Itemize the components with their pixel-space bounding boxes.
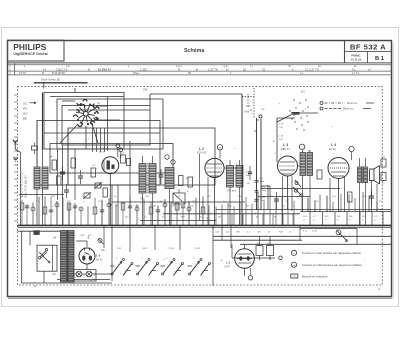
wires mains — [29, 231, 31, 245]
switch wires — [62, 100, 75, 102]
svg-text:Schéma: Schéma — [184, 48, 204, 54]
speckle dots — [254, 99, 308, 131]
svg-text:17e: 17e — [66, 65, 71, 68]
legend mV circle 1 — [291, 250, 296, 255]
svg-text:2M: 2M — [219, 147, 222, 149]
svg-text:1k2: 1k2 — [382, 183, 385, 185]
wire bus y209 — [216, 209, 391, 211]
antenna — [14, 143, 16, 149]
component symbols band — [20, 203, 205, 214]
component cells right dividers — [309, 212, 311, 226]
svg-text:8 10 20 90: 8 10 20 90 — [52, 71, 65, 75]
svg-text:1M: 1M — [192, 201, 195, 203]
wire detector column — [276, 118, 278, 162]
svg-text:4 2 T a: 4 2 T a — [352, 72, 360, 75]
svg-text:GO: GO — [23, 111, 28, 115]
mains fuse — [34, 231, 39, 235]
capacitor C11 — [78, 175, 83, 177]
IF transformer T2 winding a — [227, 166, 234, 188]
wire y194 left — [19, 194, 64, 196]
cells dividers centre — [222, 214, 293, 226]
svg-text:PO: PO — [23, 106, 28, 110]
resistor R18 box — [317, 170, 322, 179]
oscillator coil L5a — [34, 167, 40, 189]
svg-text:AZ 41: AZ 41 — [96, 259, 103, 262]
svg-text:4: 4 — [116, 257, 117, 259]
IF transformer T3 winding a — [300, 153, 306, 176]
svg-text:N: N — [88, 67, 90, 71]
mains bus left — [18, 230, 61, 232]
resistor R6 box — [57, 176, 62, 185]
resistor R3 box — [71, 158, 76, 168]
svg-text:L 1: L 1 — [100, 146, 105, 150]
wires IFT3 — [302, 176, 304, 212]
svg-text:Mesuré en voltmètre: Mesuré en voltmètre — [302, 274, 328, 278]
svg-text:C 29: C 29 — [279, 124, 284, 126]
power transformer secondary — [68, 231, 74, 283]
svg-text:1M: 1M — [337, 216, 340, 218]
wires output stage — [359, 183, 361, 226]
wire bus y220 — [140, 220, 216, 222]
svg-text:Org/SERVICE Central: Org/SERVICE Central — [13, 52, 47, 56]
svg-text:BF 532 A: BF 532 A — [350, 43, 386, 52]
grid stopper circle — [349, 146, 354, 151]
resistor R9 box — [188, 177, 193, 187]
wires rectifier — [86, 241, 88, 247]
wires psu verticals — [111, 226, 113, 281]
capacitor C30 — [369, 195, 374, 197]
padding trimmer C6 — [32, 146, 38, 150]
svg-text:N: N — [42, 71, 44, 75]
wires around L3 — [282, 176, 284, 225]
resistor R2 box — [52, 160, 57, 170]
voltage selector box — [37, 245, 57, 271]
svg-text:1 nF: 1 nF — [279, 127, 284, 129]
wires around L2 — [199, 154, 201, 220]
svg-text:1MΩ: 1MΩ — [246, 175, 251, 177]
tube L5 output — [235, 249, 255, 269]
svg-text:L 6: L 6 — [96, 254, 101, 258]
svg-text:4 17: 4 17 — [246, 106, 251, 108]
hum pot R30 — [98, 239, 102, 243]
svg-text:+2: +2 — [43, 67, 47, 71]
svg-text:4: 4 — [142, 257, 143, 259]
svg-text:27a+: 27a+ — [133, 71, 139, 75]
svg-text:2 k PI: 2 k PI — [195, 248, 201, 250]
svg-text:2 1 0 27 7Tr: 2 1 0 27 7Tr — [305, 67, 319, 71]
wire bus y211 — [300, 211, 391, 213]
volume pot arrow — [293, 187, 301, 195]
resistor R21 box — [348, 192, 353, 202]
svg-text:ECH 42: ECH 42 — [197, 151, 207, 155]
wires around L4 — [329, 178, 331, 212]
svg-text:2M: 2M — [153, 206, 156, 208]
resistor R23 box far right — [381, 159, 386, 167]
speaker — [370, 169, 375, 181]
resistor R7b box — [91, 168, 96, 177]
svg-text:UY4?: UY4? — [224, 266, 231, 269]
svg-text:EL 41: EL 41 — [329, 147, 336, 151]
svg-text:10: 10 — [243, 67, 246, 71]
black bar under note — [34, 82, 88, 83]
cap boxes right of L5 — [256, 246, 263, 256]
wire top link — [74, 88, 76, 93]
svg-text:42+: 42+ — [52, 274, 57, 276]
detector flag — [292, 112, 300, 115]
main chassis bus — [18, 224, 392, 226]
svg-text:BE: BE — [23, 116, 27, 120]
coil L8 — [165, 168, 174, 189]
svg-text:4: 4 — [167, 257, 168, 259]
legend dash lines — [320, 102, 323, 105]
svg-text:L 5: L 5 — [226, 261, 231, 265]
capacitor ticks detector strip — [255, 181, 259, 202]
legend TVT box — [291, 274, 298, 278]
wire extra horizontals cluster — [50, 96, 124, 98]
IF transformer T3 winding b — [307, 153, 313, 176]
svg-text:14.11.52: 14.11.52 — [351, 57, 362, 61]
wire drops centre below bus — [212, 226, 214, 286]
wire long verticals centre — [241, 94, 243, 225]
label stack detector strip — [246, 172, 267, 202]
svg-text:S4T1: S4T1 — [143, 248, 149, 250]
IF transformer T2 winding b — [236, 166, 243, 188]
capacitor C24 — [274, 198, 279, 200]
svg-text:B 1: B 1 — [375, 56, 385, 62]
mains switch — [40, 251, 46, 258]
svg-text:31: 31 — [262, 67, 265, 71]
svg-text:2 3 U5: 2 3 U5 — [168, 248, 175, 250]
revision table lines — [8, 64, 392, 66]
svg-text:C 28: C 28 — [279, 136, 284, 138]
bus y244 — [240, 243, 391, 245]
svg-text:0,5W: 0,5W — [312, 231, 317, 233]
capacitor C21 — [248, 171, 252, 173]
labels below bus centre — [215, 232, 292, 234]
capacitor C15 — [159, 174, 164, 176]
resistor R5 box — [103, 188, 108, 197]
wires middle right infill — [261, 188, 340, 190]
tone control block — [300, 228, 357, 230]
wires IFT1 — [142, 156, 144, 164]
output transformer winding a — [358, 167, 362, 183]
svg-text:(Vue Vérso B): (Vue Vérso B) — [41, 78, 60, 82]
svg-text:230: 230 — [143, 88, 148, 92]
bus y236 — [213, 235, 391, 237]
svg-text:94: 94 — [188, 71, 191, 75]
svg-text:1 203: 1 203 — [140, 67, 147, 71]
svg-text:4: 4 — [194, 257, 195, 259]
IF transformer T1 winding a — [139, 164, 146, 194]
svg-text:R1 R2 R3 R4 C1 C2 C3: R1 R2 R3 R4 C1 C2 C3 — [21, 172, 24, 198]
output transformer winding b — [364, 167, 368, 183]
svg-text:L 3: L 3 — [283, 143, 288, 147]
trimmer C8 — [84, 193, 90, 198]
wires tube L5 — [244, 244, 246, 248]
IF transformer T1 winding b — [149, 164, 156, 194]
wire bus y214 — [163, 213, 300, 215]
svg-text:Courant en milli-ampères pa: Courant en milli-ampères par rapport au … — [302, 263, 362, 267]
svg-text:B: B — [196, 67, 198, 71]
wire bus y202 — [112, 201, 245, 203]
svg-text:L 2: L 2 — [199, 147, 204, 151]
bridge network — [173, 193, 185, 204]
svg-text:Mod: Mod — [245, 112, 250, 114]
coil box L9a — [0, 0, 1, 1]
svg-text:2 37 7Tr: 2 37 7Tr — [208, 67, 218, 71]
power transformer primary — [61, 231, 67, 283]
wire vertical x42 heavy — [42, 93, 44, 151]
left border ticks — [14, 95, 17, 221]
svg-text:Ømes mu: Ømes mu — [343, 108, 354, 111]
oscillator coil L5b — [42, 167, 48, 189]
trimmer C12 — [95, 183, 101, 188]
wires IFT2 — [229, 160, 231, 166]
title block BF 532 A — [344, 41, 346, 63]
svg-text:L 4: L 4 — [331, 143, 336, 147]
earth symbol — [13, 157, 18, 159]
svg-text:Ømes mu: Ømes mu — [347, 102, 358, 105]
resistor R8 box — [179, 176, 184, 186]
wire verticals left section — [42, 150, 44, 225]
grid cap circle L3 — [299, 144, 304, 149]
svg-text:S2+: S2+ — [101, 249, 106, 252]
wire drops to switches — [129, 226, 131, 252]
capacitor C10 — [64, 189, 69, 191]
pilot lamps — [76, 271, 82, 277]
small circle junction — [165, 155, 169, 159]
scan speckles — [25, 101, 380, 290]
capacitor C9 — [60, 171, 65, 173]
aerial input coil box L-M-S — [57, 99, 163, 149]
band selector switch S1 starburst — [76, 105, 95, 123]
block outline lower — [231, 244, 233, 258]
svg-text:5 nF: 5 nF — [279, 139, 284, 141]
rotated component list text — [21, 172, 24, 198]
svg-text:R23: R23 — [382, 157, 385, 159]
svg-text:a 7: a 7 — [368, 68, 372, 71]
svg-text:Tension en volts positive: Tension en volts positive par rapport au… — [302, 251, 361, 255]
svg-text:EBF 41: EBF 41 — [281, 147, 290, 151]
svg-text:PHILIPS: PHILIPS — [13, 42, 47, 52]
svg-text:C b 2: C b 2 — [176, 65, 182, 68]
PHILIPS logo box — [8, 40, 65, 61]
diode arrow in L3 region — [295, 180, 301, 187]
components right of L1 — [121, 155, 126, 163]
svg-text:472 kc/s: 472 kc/s — [227, 190, 237, 193]
grid cap L2 — [217, 145, 222, 150]
component drop wires band — [22, 192, 377, 225]
tone pot — [336, 230, 341, 235]
svg-text:30pF: 30pF — [260, 181, 265, 183]
svg-text:4ch B: 4ch B — [99, 152, 105, 154]
band tiny labels row 2 — [116, 206, 286, 219]
dashed schematic border — [18, 87, 383, 285]
svg-text:14 73: 14 73 — [19, 71, 26, 75]
grid cap circles L1 — [116, 144, 120, 148]
resistor R24 box far right — [381, 173, 386, 181]
svg-text:C: C — [9, 69, 11, 72]
drawing frame border — [8, 41, 392, 297]
lamp enclosure box — [74, 270, 96, 282]
legend mV circle 2 — [291, 262, 296, 267]
band tiny labels — [20, 196, 382, 203]
bus y240 — [213, 239, 302, 241]
rectifier tube L6 AZ41 — [79, 248, 95, 264]
